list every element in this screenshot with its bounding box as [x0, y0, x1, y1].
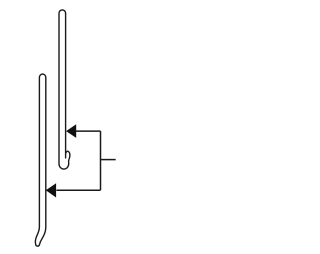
needle N1 (short, bent tip at bottom) [35, 74, 45, 246]
stub lead on right of callout [101, 159, 116, 161]
arrow A2 pointing at needle N1 [46, 183, 56, 197]
wire bottom segment to arrow A2 [56, 189, 100, 191]
wire from arrow A1 to callout corner [76, 130, 101, 132]
needle N2 (tall, hook at bottom) [59, 10, 70, 169]
arrow A1 pointing at needle N2 [66, 124, 76, 138]
wire vertical segment of callout [100, 131, 102, 190]
